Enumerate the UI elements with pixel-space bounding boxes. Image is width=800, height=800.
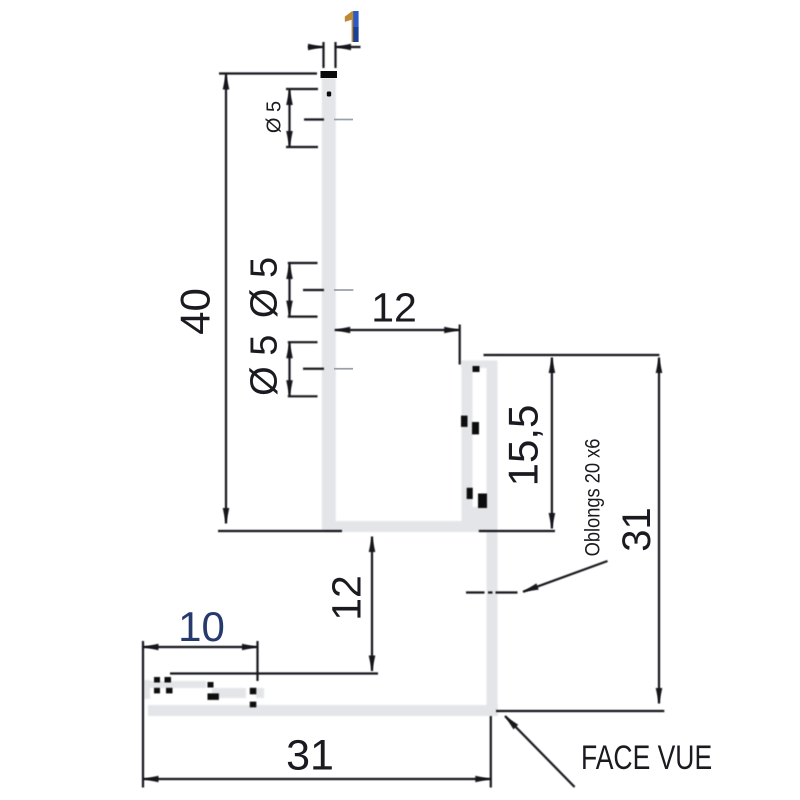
svg-text:Oblongs 20 x6: Oblongs 20 x6 [581, 439, 605, 557]
svg-text:Ø 5: Ø 5 [244, 335, 286, 396]
svg-text:Ø 5: Ø 5 [264, 101, 286, 133]
svg-text:10: 10 [178, 603, 225, 650]
svg-text:31: 31 [615, 507, 659, 552]
svg-text:15,5: 15,5 [500, 405, 547, 487]
svg-text:40: 40 [172, 288, 219, 335]
svg-text:Ø 5: Ø 5 [244, 257, 286, 318]
svg-text:12: 12 [324, 575, 370, 621]
svg-text:31: 31 [286, 732, 334, 780]
svg-text:12: 12 [371, 285, 417, 331]
svg-text:FACE VUE: FACE VUE [581, 739, 712, 777]
